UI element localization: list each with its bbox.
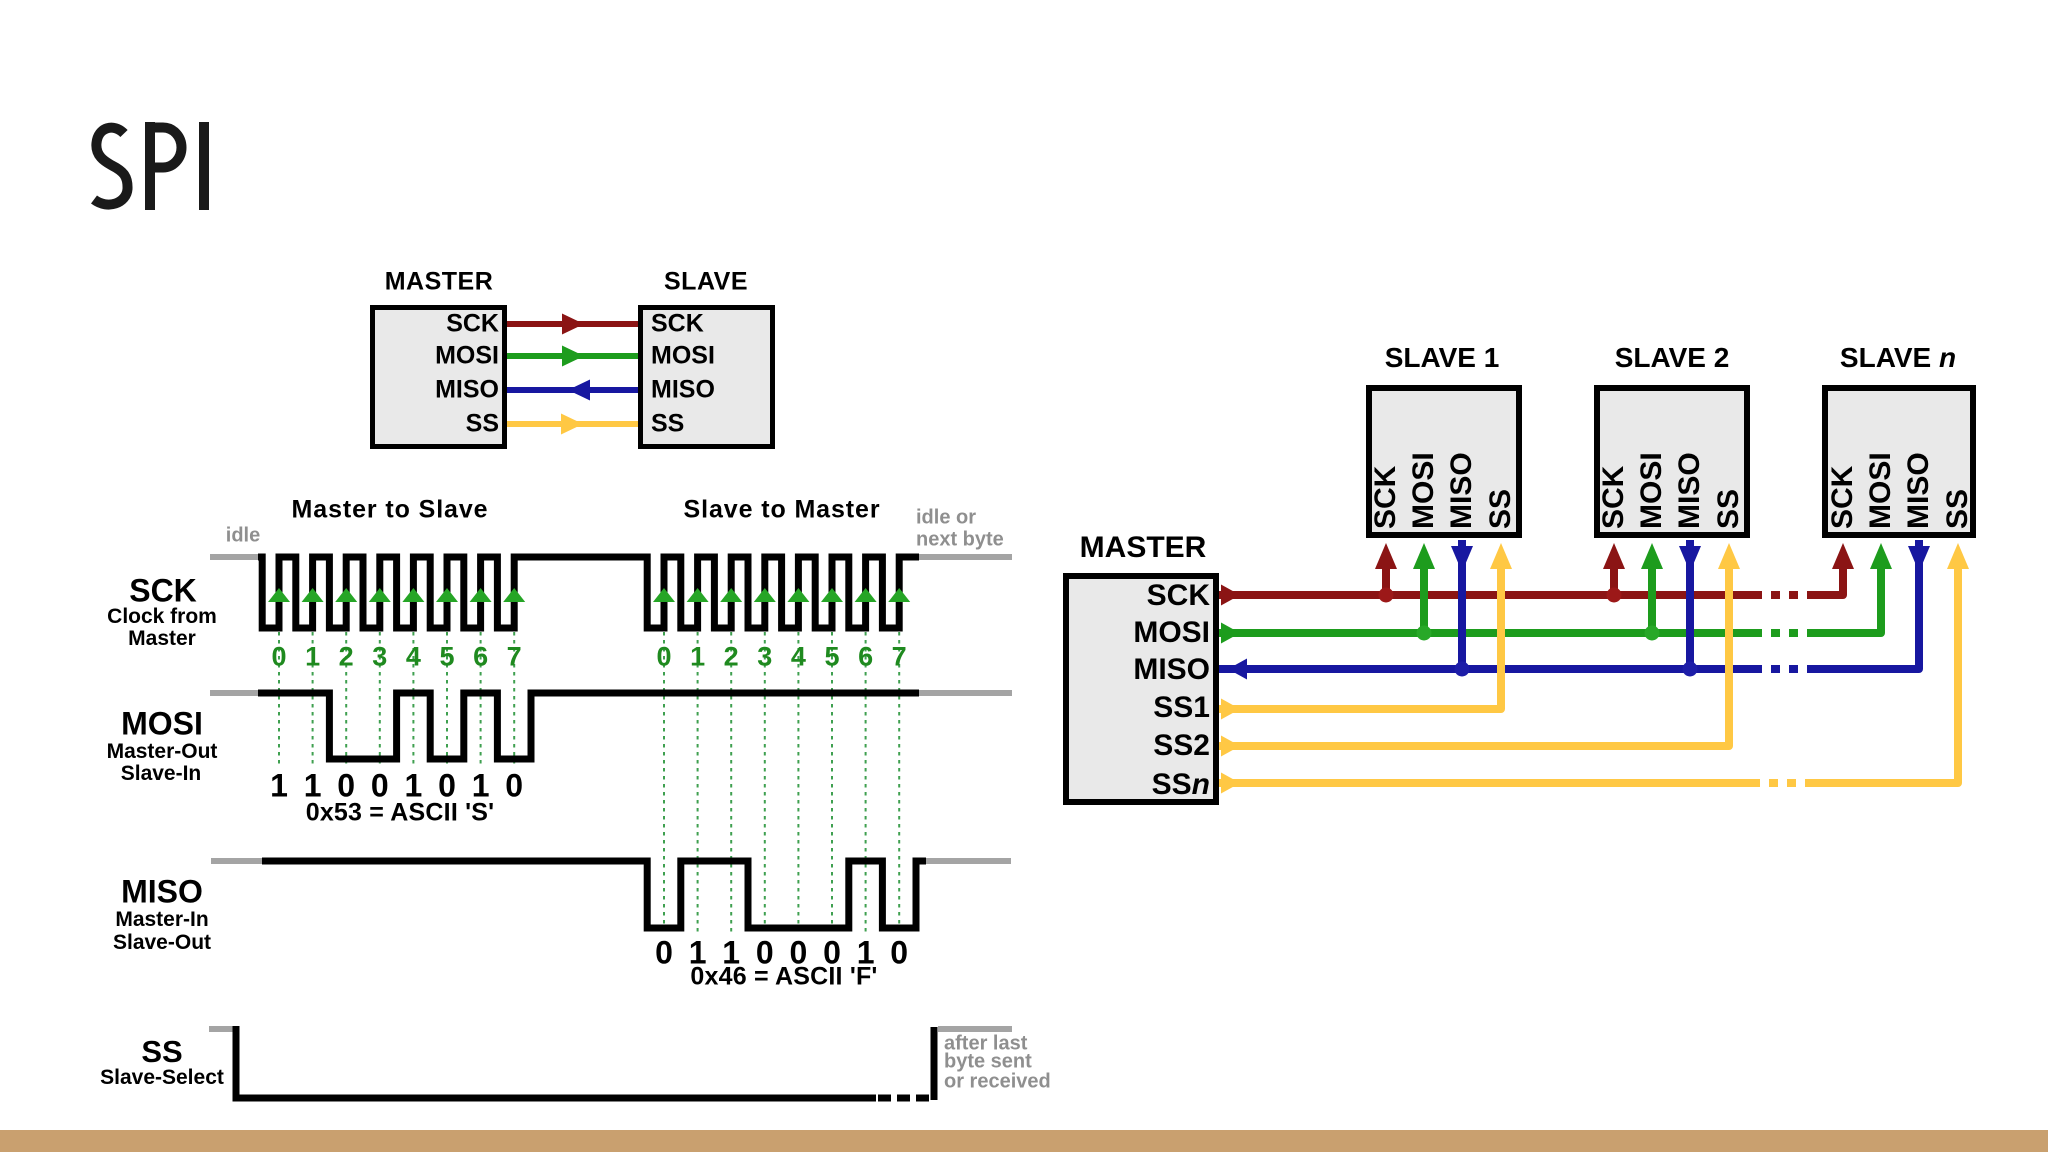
wire MISO bus horizontal (slaves to master)	[1219, 665, 1762, 673]
clock sample green dashed lines	[278, 632, 280, 766]
wire SSn stub into SLAVE n SS pin	[1805, 562, 1958, 783]
SLAVE 2 box	[1597, 388, 1747, 535]
signal label MOSI / Master-Out Slave-In	[121, 706, 203, 743]
MISO idle line left (gray)	[211, 858, 264, 864]
SS waveform	[236, 1026, 876, 1098]
signal label MISO / Master-In Slave-Out	[121, 874, 203, 911]
signal label SCK / Clock from Master	[129, 573, 197, 610]
green bit numbers 0-7 (first byte)	[271, 642, 286, 673]
multi-slave diagram: MASTER box	[1066, 576, 1216, 802]
arrowhead MISO into master	[1228, 659, 1247, 680]
wire SCK stub into SLAVE n	[1807, 562, 1843, 595]
wire SS1 (master to slave 1 SS pin)	[1219, 562, 1501, 709]
arrowheads SCK into slave pins	[1375, 543, 1397, 569]
label SLAVE n	[1840, 342, 1956, 374]
MOSI idle line left (gray)	[210, 690, 261, 696]
wire SSn dash-dot break	[1769, 779, 1796, 787]
arrowheads MISO out of slave pins	[1451, 546, 1473, 572]
wire SS2 (master to slave 2 SS pin)	[1219, 562, 1729, 746]
signal label SS / Slave-Select	[141, 1034, 182, 1070]
arrowheads SS1/SS2/SSn out of master	[1221, 699, 1240, 720]
label SLAVE 1	[1385, 342, 1500, 374]
arrowhead MOSI (right)	[562, 346, 584, 367]
arrowhead SCK (right)	[562, 314, 584, 335]
MOSI bit values 11001010	[270, 768, 288, 805]
SS rising edge after last byte	[931, 1027, 938, 1100]
MISO bit values 01100010	[655, 935, 673, 972]
idle or next byte annotation (gray)	[916, 507, 976, 530]
wire MOSI stubs into SLAVE 1 and SLAVE 2	[1424, 562, 1652, 633]
idle annotation (gray)	[226, 525, 260, 548]
label SLAVE (top diagram)	[664, 268, 748, 297]
green bit numbers 0-7 (second byte)	[656, 642, 671, 673]
pin labels MASTER (multi-slave)	[1147, 579, 1210, 613]
clock rising-edge green arrows	[268, 588, 290, 602]
MOSI idle line right (gray)	[919, 690, 1012, 696]
title SPI	[94, 122, 204, 210]
wire MISO stub from SLAVE n	[1807, 540, 1919, 669]
MOSI waveform	[258, 693, 919, 759]
SS idle line right (gray)	[938, 1026, 1012, 1032]
arrowheads MOSI into slave pins	[1413, 543, 1435, 569]
top connection diagram: SLAVE box	[641, 308, 773, 447]
arrowhead SCK out of master	[1221, 585, 1240, 606]
label MASTER (top diagram)	[385, 268, 494, 297]
heading Slave to Master	[684, 496, 881, 525]
wire SS master->slave	[507, 421, 638, 427]
wire MOSI bus horizontal (master to slaves)	[1219, 629, 1762, 637]
SLAVE n box	[1825, 388, 1973, 535]
bottom tan bar	[0, 1130, 2048, 1152]
heading Master to Slave	[292, 496, 489, 525]
wire MOSI bus dash-dot break before slave n	[1771, 629, 1798, 637]
arrowhead MISO (left)	[568, 380, 590, 401]
arrowheads SS into slave pins	[1490, 543, 1512, 569]
SCK idle line (gray)	[210, 554, 262, 560]
wire MISO stubs from SLAVE 1 and SLAVE 2	[1462, 540, 1690, 669]
wire SCK bus dash-dot break before slave n	[1771, 591, 1798, 599]
label 0x46 = ASCII F	[690, 963, 877, 992]
rotated pin labels for slave boxes	[1371, 499, 1401, 529]
wire SSn horizontal (master toward slave n)	[1219, 779, 1760, 787]
SLAVE 1 box	[1369, 388, 1519, 535]
junction dots on MISO bus	[1455, 662, 1470, 677]
pin labels SLAVE box (top)	[651, 310, 704, 339]
wire SCK bus horizontal (master to slaves)	[1219, 591, 1762, 599]
SS dashed end of low line	[878, 1095, 929, 1102]
wire MISO bus dash-dot break before slave n	[1771, 665, 1798, 673]
after last byte sent or received (gray)	[944, 1033, 1027, 1056]
label MASTER (multi-slave diagram)	[1080, 531, 1207, 565]
MISO waveform	[262, 861, 926, 928]
SCK clock waveform	[258, 557, 919, 628]
pin labels MASTER box (top)	[446, 310, 499, 339]
label 0x53 = ASCII S	[306, 799, 495, 828]
wire SCK master->slave	[507, 321, 638, 327]
wire MOSI master->slave	[507, 353, 638, 359]
label SLAVE 2	[1615, 342, 1730, 374]
wire MOSI stub into SLAVE n	[1807, 562, 1881, 633]
arrowhead SS (right)	[561, 414, 583, 435]
SCK idle/next-byte line right (gray)	[919, 554, 1012, 560]
wire MISO slave->master	[507, 387, 638, 393]
arrowhead MOSI out of master	[1221, 623, 1240, 644]
MISO idle line right (gray)	[926, 858, 1011, 864]
top connection diagram: MASTER box	[373, 308, 505, 447]
wire SCK stubs into SLAVE 1 and SLAVE 2	[1386, 562, 1614, 595]
SS idle line left (gray)	[209, 1026, 235, 1032]
junction dots on MOSI bus	[1417, 626, 1432, 641]
junction dots on SCK bus	[1379, 588, 1394, 603]
